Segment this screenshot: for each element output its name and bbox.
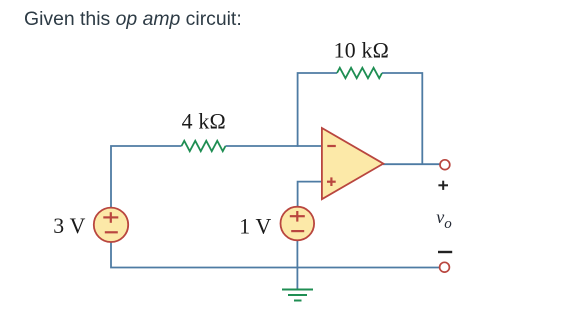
svg-text:vo: vo: [436, 207, 452, 232]
svg-text:4 kΩ: 4 kΩ: [182, 109, 226, 133]
svg-text:10 kΩ: 10 kΩ: [334, 39, 389, 63]
svg-text:3 V: 3 V: [53, 214, 85, 238]
svg-text:1 V: 1 V: [239, 214, 271, 238]
